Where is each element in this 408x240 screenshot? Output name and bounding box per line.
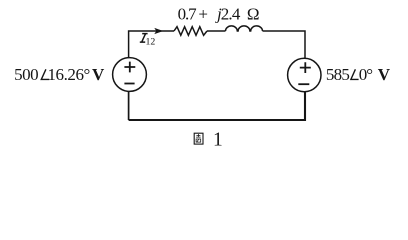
svg-text:V: V <box>92 65 105 84</box>
source V1 circle (left) <box>113 58 147 92</box>
value and unit of 585 label <box>359 65 391 84</box>
wire between resistor and inductor <box>207 30 226 32</box>
source V2 circle (right) <box>288 58 321 91</box>
svg-text:1: 1 <box>213 129 223 150</box>
svg-text:V: V <box>378 65 391 84</box>
angle symbol of 585 label <box>351 69 359 79</box>
svg-text:Ω: Ω <box>247 5 260 24</box>
angle symbol of 500 label <box>41 69 49 79</box>
source V1 minus sign <box>124 83 134 85</box>
value and unit of 500 label <box>48 65 106 84</box>
wire bottom-left segment <box>128 92 130 120</box>
label I12 <box>140 34 156 48</box>
svg-text:12: 12 <box>146 37 156 48</box>
current arrow I12 head <box>155 28 162 33</box>
wire top-right segment with corner <box>263 31 306 58</box>
wire top-left segment with corner <box>129 31 174 58</box>
source V1 plus sign <box>124 62 135 73</box>
source V2 plus sign <box>300 62 311 73</box>
inductor L (j2.4 ohm part) <box>226 26 263 31</box>
svg-text:585: 585 <box>326 65 350 84</box>
svg-text:500: 500 <box>14 65 38 84</box>
caption figure character (Chinese tu) <box>194 133 203 144</box>
svg-text:+: + <box>198 5 208 24</box>
svg-text:2.4: 2.4 <box>221 5 241 24</box>
svg-text:0°: 0° <box>359 65 373 84</box>
svg-text:0.7: 0.7 <box>178 5 198 24</box>
wire right-bottom segment <box>129 92 305 120</box>
svg-text:16.26°: 16.26° <box>48 65 90 84</box>
impedance label 0.7 + j2.4 ohm <box>178 5 260 24</box>
source V2 minus sign <box>298 83 309 85</box>
resistor R (0.7 ohm part) <box>174 27 207 36</box>
